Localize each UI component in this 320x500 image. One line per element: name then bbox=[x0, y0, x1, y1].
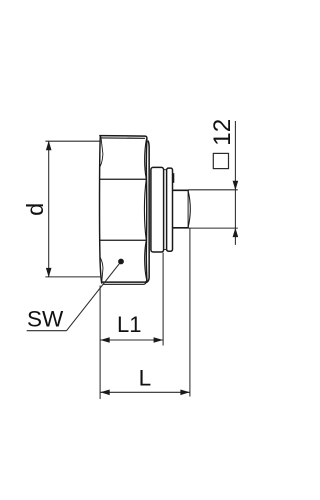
hex top-left corner chamfer wedge bbox=[100, 137, 103, 166]
hex bottom edge outer bbox=[102, 280, 147, 283]
dimension L1: arrowhead left bbox=[100, 337, 109, 343]
svg-text:L: L bbox=[139, 366, 152, 391]
dimension box12: bottom extension line bbox=[189, 227, 238, 229]
shank bottom edge bbox=[173, 227, 188, 229]
shank top edge bbox=[173, 189, 188, 191]
label box symbol of box12 bbox=[213, 153, 228, 168]
cylinder edge behind hex (across-flats face) bbox=[147, 141, 149, 282]
hex facet line upper bbox=[100, 178, 146, 180]
shank end chamfer curve bbox=[188, 190, 190, 227]
svg-text:SW: SW bbox=[27, 307, 64, 332]
groove notch bottom bbox=[164, 249, 167, 251]
dimension L1: right extension line bbox=[162, 253, 164, 346]
hex bottom-left corner chamfer wedge bbox=[100, 258, 103, 283]
dimension L: right extension line bbox=[189, 229, 191, 397]
hex right edge inner facet curve top band bbox=[145, 140, 147, 180]
washer ring 1 bbox=[151, 167, 164, 252]
dimension L: arrowhead right bbox=[180, 390, 189, 396]
dimension L1: dimension line bbox=[100, 339, 162, 341]
washer ring 2 bbox=[167, 168, 173, 251]
dimension d: dimension line bbox=[48, 141, 50, 277]
hex body silhouette left edge bbox=[100, 136, 102, 283]
hex bottom edge inner chamfer line bbox=[103, 281, 147, 285]
dimension L: arrowhead left bbox=[100, 390, 109, 396]
hex right edge inner facet curve middle band bbox=[144, 179, 146, 240]
dimension d: bottom extension line bbox=[45, 276, 101, 278]
svg-text:L1: L1 bbox=[117, 312, 141, 337]
dimension d: top extension line bbox=[45, 140, 99, 142]
hex body top edge outer bbox=[100, 136, 147, 139]
groove notch top bbox=[164, 169, 167, 171]
hex right edge inner facet curve bottom band bbox=[145, 240, 147, 278]
retaining tab on ring 2 bbox=[172, 173, 174, 183]
SW leader underline bbox=[27, 330, 67, 332]
dimension box12: arrowhead down bbox=[233, 181, 239, 190]
svg-text:12: 12 bbox=[209, 119, 236, 146]
dimension L: dimension line bbox=[100, 391, 189, 393]
dimension d: arrowhead down bbox=[46, 268, 52, 277]
shank end face edge bbox=[187, 191, 189, 228]
SW leader dot bbox=[118, 259, 124, 265]
dimension box12: arrowhead up bbox=[233, 228, 239, 237]
left shared extension line for L1 and L bbox=[99, 286, 101, 400]
dimension d: arrowhead up bbox=[46, 141, 52, 150]
dimension box12: top extension line bbox=[189, 189, 238, 191]
SW leader diagonal bbox=[67, 262, 121, 331]
hex right edge outer curve bbox=[145, 139, 148, 280]
dimension box12: dimension line bbox=[234, 121, 236, 245]
hex body top edge inner chamfer line bbox=[102, 137, 145, 139]
svg-text:d: d bbox=[22, 203, 48, 216]
hex facet line lower bbox=[100, 239, 146, 241]
dimension L1: arrowhead right bbox=[154, 337, 163, 343]
